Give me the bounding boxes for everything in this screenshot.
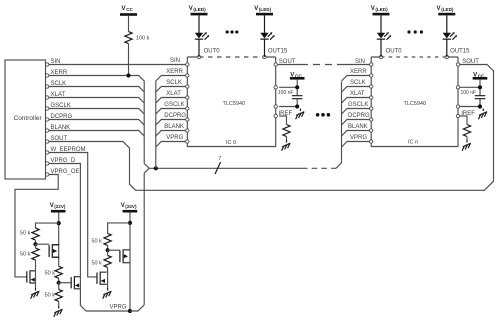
svg-text:XLAT: XLAT bbox=[166, 91, 181, 97]
svg-text:SCLK: SCLK bbox=[350, 80, 366, 86]
svg-text:V: V bbox=[254, 6, 258, 12]
svg-text:V: V bbox=[371, 6, 375, 12]
svg-text:7: 7 bbox=[218, 156, 221, 162]
svg-text:(22V): (22V) bbox=[54, 204, 66, 209]
svg-text:OUT15: OUT15 bbox=[450, 49, 470, 55]
svg-text:(LED): (LED) bbox=[375, 7, 388, 12]
svg-text:TLC5940: TLC5940 bbox=[404, 101, 427, 107]
svg-text:100 nF: 100 nF bbox=[461, 90, 477, 96]
svg-text:IC 0: IC 0 bbox=[226, 140, 236, 146]
svg-text:CC: CC bbox=[126, 7, 133, 12]
svg-text:GSCLK: GSCLK bbox=[164, 102, 184, 108]
svg-text:V: V bbox=[290, 72, 294, 78]
svg-text:V: V bbox=[437, 6, 441, 12]
svg-text:V: V bbox=[473, 72, 477, 78]
svg-text:DCPRG: DCPRG bbox=[348, 113, 370, 119]
svg-text:DCPRG: DCPRG bbox=[164, 113, 186, 119]
svg-text:100 nF: 100 nF bbox=[278, 90, 294, 96]
svg-text:VPRG: VPRG bbox=[166, 135, 183, 141]
svg-text:V: V bbox=[189, 6, 193, 12]
svg-text:OUT0: OUT0 bbox=[204, 49, 221, 55]
svg-text:50 k: 50 k bbox=[92, 260, 103, 266]
svg-text:XLAT: XLAT bbox=[350, 91, 365, 97]
svg-text:V: V bbox=[50, 203, 54, 209]
svg-text:50 k: 50 k bbox=[45, 293, 56, 299]
svg-text:OUT15: OUT15 bbox=[268, 49, 288, 55]
svg-text:V: V bbox=[121, 203, 125, 209]
svg-text:VPRG: VPRG bbox=[350, 135, 367, 141]
svg-text:OUT0: OUT0 bbox=[386, 49, 403, 55]
svg-text:BLANK: BLANK bbox=[348, 124, 368, 130]
svg-text:(LED): (LED) bbox=[259, 7, 272, 12]
svg-text:50 k: 50 k bbox=[20, 230, 31, 236]
svg-text:(LED): (LED) bbox=[441, 7, 454, 12]
svg-text:SIN: SIN bbox=[170, 58, 180, 64]
svg-text:TLC5940: TLC5940 bbox=[223, 101, 246, 107]
svg-text:Controller: Controller bbox=[14, 115, 43, 122]
svg-text:50 k: 50 k bbox=[20, 252, 31, 258]
svg-text:BLANK: BLANK bbox=[164, 124, 184, 130]
svg-text:IC n: IC n bbox=[408, 139, 418, 145]
svg-text:CC: CC bbox=[478, 73, 485, 78]
svg-text:SCLK: SCLK bbox=[166, 80, 182, 86]
svg-text:GSCLK: GSCLK bbox=[348, 102, 368, 108]
svg-text:100 k: 100 k bbox=[136, 36, 150, 42]
svg-text:(22V): (22V) bbox=[125, 204, 137, 209]
svg-text:VPRG: VPRG bbox=[110, 305, 127, 311]
svg-text:XERR: XERR bbox=[166, 69, 183, 75]
svg-text:V: V bbox=[122, 6, 126, 12]
svg-text:50 k: 50 k bbox=[45, 271, 56, 277]
svg-text:50 k: 50 k bbox=[92, 238, 103, 244]
svg-text:XERR: XERR bbox=[350, 69, 367, 75]
svg-text:(LED): (LED) bbox=[193, 7, 206, 12]
svg-text:CC: CC bbox=[295, 73, 302, 78]
